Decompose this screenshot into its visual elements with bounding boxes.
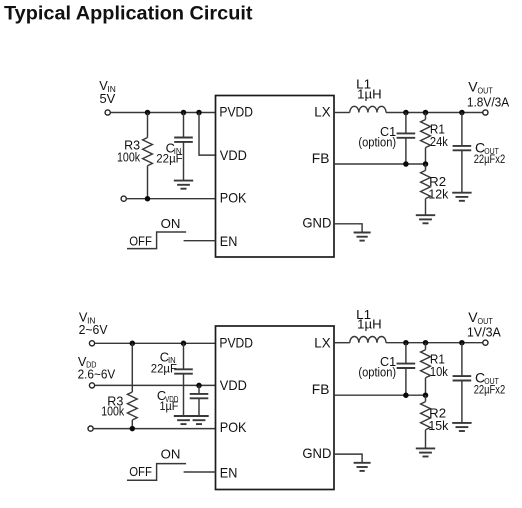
svg-text:(option): (option) [358, 365, 396, 380]
svg-text:100k: 100k [117, 149, 140, 164]
svg-text:EN: EN [220, 233, 238, 249]
svg-text:1µH: 1µH [357, 86, 381, 101]
svg-text:GND: GND [302, 445, 331, 461]
svg-text:15k: 15k [428, 418, 448, 433]
svg-text:POK: POK [220, 189, 247, 205]
svg-text:ON: ON [161, 216, 181, 231]
svg-text:Typical Application Circuit: Typical Application Circuit [4, 4, 253, 25]
svg-text:22µFx2: 22µFx2 [474, 152, 506, 166]
svg-text:LX: LX [314, 104, 331, 120]
svg-text:1.8V/3A: 1.8V/3A [467, 94, 510, 109]
svg-text:LX: LX [314, 334, 331, 350]
svg-text:24k: 24k [430, 134, 448, 149]
svg-text:VDD: VDD [220, 147, 247, 163]
svg-text:22µF: 22µF [151, 361, 177, 375]
svg-text:POK: POK [220, 419, 247, 435]
svg-text:(option): (option) [358, 134, 396, 149]
svg-text:FB: FB [312, 381, 330, 397]
svg-text:PVDD: PVDD [219, 104, 253, 120]
svg-text:22µF: 22µF [156, 151, 183, 165]
svg-text:PVDD: PVDD [219, 334, 253, 350]
svg-text:ON: ON [161, 446, 181, 461]
svg-text:1V/3A: 1V/3A [467, 325, 501, 340]
svg-text:2.6~6V: 2.6~6V [78, 367, 116, 382]
svg-text:100k: 100k [101, 403, 124, 418]
svg-text:VDD: VDD [220, 377, 247, 393]
svg-text:2~6V: 2~6V [79, 322, 108, 337]
svg-text:EN: EN [220, 464, 238, 480]
svg-text:GND: GND [302, 215, 331, 231]
svg-text:1µF: 1µF [160, 399, 179, 413]
svg-text:1µH: 1µH [357, 317, 381, 332]
svg-text:22µFx2: 22µFx2 [474, 382, 506, 396]
svg-text:FB: FB [312, 150, 330, 166]
svg-text:5V: 5V [100, 91, 116, 106]
svg-text:OFF: OFF [129, 234, 152, 249]
svg-text:12k: 12k [428, 187, 448, 202]
svg-text:OFF: OFF [129, 464, 152, 479]
svg-text:10k: 10k [430, 364, 448, 379]
